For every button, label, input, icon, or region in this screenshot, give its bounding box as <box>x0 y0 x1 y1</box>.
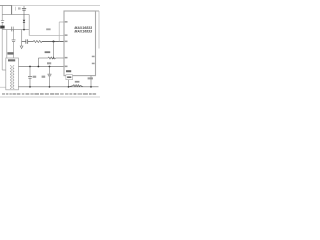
label C6 <box>33 76 37 78</box>
label above mid rail <box>47 62 51 64</box>
wire GND pin to bottom rail <box>68 76 70 87</box>
node K junction dot <box>23 29 25 31</box>
wire bottom rail left stub <box>0 86 6 88</box>
capacitor C5 (comp) <box>26 39 28 43</box>
wire battery rail down to comp node <box>21 30 23 42</box>
label R2 <box>45 51 51 53</box>
capacitor C2 <box>22 6 26 15</box>
wire battery return x=2.2 <box>1 30 3 71</box>
pin label GND <box>66 70 71 72</box>
pin label y=57 <box>65 57 68 59</box>
wire R2 left lead <box>38 57 48 59</box>
wire right vertical x=99 <box>98 11 100 49</box>
wire box top extension <box>96 10 100 12</box>
wire comp branch left <box>22 41 26 43</box>
top page rule <box>0 5 100 7</box>
wire into T1 left <box>2 69 6 71</box>
label C2 <box>18 7 21 9</box>
wire PGND x=91 <box>90 76 92 87</box>
capacitor C1 <box>11 6 13 15</box>
wire top rail left segment <box>0 5 12 7</box>
resistor R1 (comp) <box>33 41 42 43</box>
pin label y=41 <box>65 41 68 43</box>
pin label y=22 <box>65 21 68 23</box>
label PGND <box>88 77 93 79</box>
node I junction dot <box>29 86 31 88</box>
node D junction dot <box>29 66 31 68</box>
wire pin stub y=22 <box>59 21 64 23</box>
pin label right y=56 <box>92 56 95 58</box>
component box on GND wire <box>66 75 73 80</box>
wire node B down to R2 branch <box>53 42 55 59</box>
node E junction dot <box>38 66 40 68</box>
node B junction dot <box>53 41 55 43</box>
capacitor C4 (on x=13.5 drop to choke) <box>12 30 16 59</box>
ground <box>20 42 23 49</box>
wire battery rail y=29.5 <box>2 29 29 31</box>
capacitor C3 (series in battery rail) <box>11 27 13 32</box>
wire x=6.8 to choke <box>6 30 8 59</box>
label C1 <box>14 7 16 11</box>
wire bottom rail y=86.8 <box>19 86 99 88</box>
capacitor C7 <box>48 67 52 87</box>
wire R2 right lead to IC <box>56 57 64 59</box>
wire right drop x=29.2 <box>28 15 30 36</box>
wire corner drop x=38.4 <box>37 58 39 67</box>
label VBATT <box>0 26 4 29</box>
transformer T1 windings <box>10 66 14 89</box>
transformer T1 box <box>6 58 19 90</box>
node C junction dot <box>53 57 55 59</box>
resistor R2 <box>48 57 56 59</box>
wire comp to IC pin COMP <box>42 41 64 43</box>
op-amp U1 MAX16833 box <box>64 11 96 76</box>
footer caption text <box>2 93 96 94</box>
diode D1 <box>23 15 26 30</box>
label above IN wire <box>46 28 50 30</box>
wire to IC pin IN y=35.3 <box>29 34 64 36</box>
pin label right y=63 <box>92 63 95 64</box>
node J junction dot <box>49 86 51 88</box>
wire VIN rail y=14.5 <box>2 14 29 16</box>
battery B1 <box>1 6 4 30</box>
wire cap to resistor <box>28 41 33 43</box>
label T1 <box>7 52 13 54</box>
node H junction dot <box>90 86 92 88</box>
label C7 <box>42 76 46 78</box>
pin label y=66 <box>65 66 68 68</box>
capacitor C6 <box>28 67 32 87</box>
node F junction dot <box>49 66 51 68</box>
label R3 sense <box>75 81 80 83</box>
label in T1 box <box>8 59 15 61</box>
bottom page rule <box>0 96 100 98</box>
wire vertical x=59.2 <box>58 22 60 42</box>
pin label y=35 <box>65 34 68 36</box>
svg-text:MAX16833: MAX16833 <box>75 30 93 34</box>
wire mid rail y=66.5 <box>19 66 65 68</box>
node G junction dot <box>68 86 70 88</box>
resistor R3 (sense) <box>69 85 84 87</box>
